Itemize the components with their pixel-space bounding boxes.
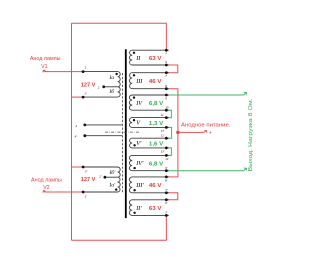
svg-text:III: III — [135, 78, 143, 85]
phase dot III — [133, 74, 135, 76]
wire pin 3prime to bus — [72, 166, 84, 168]
svg-text:8: 8 — [165, 84, 167, 88]
terminal output bottom arrow — [244, 168, 247, 171]
node pin bottom of V′ — [165, 147, 168, 150]
svg-text:12′: 12′ — [161, 133, 165, 137]
svg-text:Анод лампы: Анод лампы — [30, 56, 61, 62]
phase dot V — [133, 119, 135, 121]
node pin top of IV′ — [165, 154, 168, 157]
svg-text:2: 2 — [98, 85, 100, 89]
node pin 2prime — [104, 176, 107, 179]
phase dot III′ — [133, 189, 135, 191]
svg-text:63 V: 63 V — [149, 206, 162, 212]
node pin 3 — [82, 96, 85, 99]
node pin bottom of IV — [165, 109, 168, 112]
wire red bracket pins 6-7 — [166, 65, 177, 73]
terminal anode plus — [204, 131, 207, 133]
svg-text:9′: 9′ — [165, 166, 168, 170]
node pin bottom of III — [165, 87, 168, 90]
svg-text:5′: 5′ — [165, 211, 168, 215]
svg-text:3: 3 — [85, 92, 87, 96]
wire red top rail to pin 5 — [72, 23, 167, 50]
wire pin 3 to bus — [72, 96, 84, 98]
svg-text:Iб: Iб — [108, 88, 114, 95]
phase dot IV′ — [133, 167, 135, 169]
primary winding I top (Ia, Ib) — [83, 72, 120, 98]
node pin 1 — [82, 70, 85, 73]
wire V2 to pin 1prime — [45, 191, 84, 193]
wire tap pin 2 — [104, 86, 118, 88]
phase dot II′ — [133, 212, 135, 214]
screen dashed line — [121, 73, 123, 193]
svg-text:6: 6 — [165, 60, 167, 64]
phase dot winding I bottom — [115, 188, 117, 190]
phase dot IV — [133, 96, 135, 98]
svg-text:1,3 V: 1,3 V — [149, 121, 164, 127]
phase dot V′ — [133, 144, 135, 146]
svg-text:13′: 13′ — [161, 149, 165, 153]
wire red bottom rail to pin 6prime — [72, 215, 167, 240]
node pin bottom of II′ — [165, 214, 168, 217]
svg-text:1,6 V: 1,6 V — [149, 141, 164, 147]
svg-text:3′: 3′ — [85, 169, 88, 173]
svg-text:V: V — [136, 120, 141, 127]
svg-text:7: 7 — [165, 74, 167, 78]
svg-text:11: 11 — [161, 113, 164, 117]
svg-text:9: 9 — [165, 96, 167, 100]
secondary winding V′ — [130, 138, 169, 148]
node pin top of IV — [165, 94, 168, 97]
svg-text:2′: 2′ — [99, 174, 102, 178]
node pin top of V′ — [165, 137, 168, 140]
wire red left vertical bus — [71, 23, 73, 240]
secondary winding II′ — [129, 200, 168, 216]
node pin top of II′ — [165, 198, 168, 201]
primary winding I bottom (Ib', Ia') — [83, 167, 120, 192]
svg-text:5: 5 — [165, 52, 167, 56]
wire green output bottom (pin 9prime) — [166, 170, 243, 172]
svg-text:4′: 4′ — [75, 135, 78, 139]
node pin 4prime — [83, 134, 86, 137]
svg-text:Iа′: Iа′ — [108, 183, 116, 189]
wire red anode vertical pins 8-7prime — [166, 89, 178, 177]
svg-text:Анод лампы: Анод лампы — [31, 178, 62, 184]
wire screen tap 4 — [85, 124, 123, 126]
svg-text:8′: 8′ — [165, 178, 168, 182]
svg-text:Анодное питание.: Анодное питание. — [181, 123, 230, 129]
node pin 1prime — [82, 191, 85, 194]
terminal output top arrow — [244, 92, 247, 95]
svg-text:6′: 6′ — [165, 201, 168, 205]
node pin top of V — [165, 116, 168, 119]
svg-text:+: + — [209, 130, 212, 136]
svg-text:6,8 V: 6,8 V — [149, 161, 164, 167]
node pin 2 — [102, 85, 105, 88]
core solid line — [125, 49, 127, 218]
svg-text:II′: II′ — [135, 205, 142, 212]
svg-text:1: 1 — [85, 66, 87, 70]
wire green output top (pin 9) — [166, 94, 243, 96]
node pin top of III — [165, 71, 168, 74]
node pin top of III′ — [165, 176, 168, 179]
wire green bracket pins 10-11 — [166, 110, 171, 118]
wire screen tap 4prime — [85, 135, 123, 137]
node pin bottom of III′ — [165, 191, 168, 194]
svg-text:IV′: IV′ — [135, 160, 144, 167]
svg-text:Iб′: Iб′ — [108, 169, 116, 176]
wire green bracket pins 13prime-11prime — [166, 148, 171, 156]
svg-text:4: 4 — [75, 124, 77, 128]
svg-text:46 V: 46 V — [149, 183, 162, 189]
node pin top of II — [165, 49, 168, 52]
svg-text:Iа: Iа — [108, 75, 114, 81]
svg-text:III′: III′ — [135, 182, 144, 189]
axis dash-dot line — [105, 131, 139, 133]
svg-text:6,8 V: 6,8 V — [149, 101, 164, 107]
junction anode — [176, 131, 179, 134]
svg-text:127 V: 127 V — [81, 82, 96, 88]
node pin 3prime — [82, 166, 85, 169]
secondary winding III — [129, 73, 168, 89]
node pin bottom of IV′ — [165, 169, 168, 172]
wire tap pin 2prime — [105, 176, 118, 178]
svg-text:IV: IV — [135, 100, 143, 107]
secondary winding IV — [129, 95, 168, 110]
secondary winding III′ — [129, 177, 168, 193]
phase dot II — [133, 52, 135, 54]
svg-text:V2: V2 — [43, 185, 49, 191]
wire anode output — [178, 131, 204, 133]
svg-text:V′: V′ — [136, 140, 142, 147]
svg-text:V1: V1 — [41, 64, 47, 70]
svg-text:11′: 11′ — [165, 157, 169, 161]
svg-text:Выход. Нагрузка 8 Ом.: Выход. Нагрузка 8 Ом. — [248, 98, 254, 171]
node pin 4 — [83, 124, 86, 127]
svg-text:7′: 7′ — [165, 188, 168, 192]
wire green bracket pins 13-12prime — [166, 127, 171, 138]
svg-text:1′: 1′ — [85, 194, 88, 198]
secondary winding IV′ — [129, 155, 168, 170]
svg-text:63 V: 63 V — [149, 56, 162, 62]
terminal V1 arrow — [43, 70, 46, 72]
svg-text:10: 10 — [165, 105, 169, 109]
svg-text:46 V: 46 V — [149, 79, 162, 85]
node pin bottom of II — [165, 64, 168, 67]
svg-text:13: 13 — [161, 129, 165, 133]
svg-text:127 V: 127 V — [81, 177, 96, 183]
svg-text:II: II — [135, 55, 141, 62]
wire V1 to pin 1 — [45, 71, 84, 73]
node pin bottom of V — [165, 126, 168, 129]
terminal V2 arrow — [43, 191, 46, 193]
phase dot winding I — [115, 73, 117, 75]
secondary winding V — [129, 118, 168, 128]
wire red bracket pins 8prime-7prime — [166, 193, 177, 200]
secondary winding II — [129, 50, 168, 65]
